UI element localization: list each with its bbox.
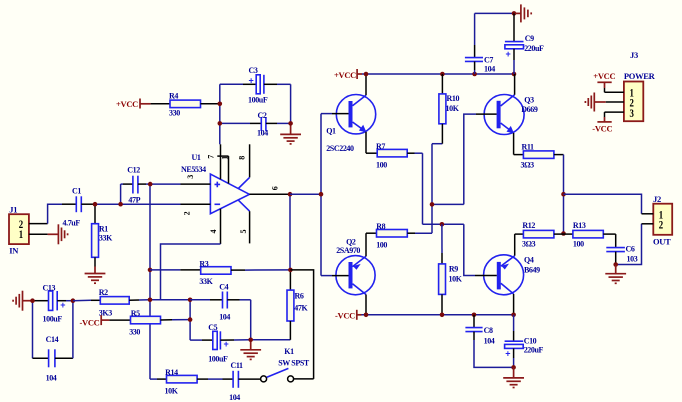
junction dots (+VCC rail) <box>364 72 369 77</box>
svg-text:+: + <box>505 348 510 358</box>
svg-text:104: 104 <box>484 65 495 74</box>
connector J1 IN <box>9 205 48 256</box>
svg-text:C2: C2 <box>258 111 267 120</box>
switch K1 SW SPST <box>261 347 314 382</box>
svg-text:C8: C8 <box>484 326 493 335</box>
resistor R11 <box>514 142 564 169</box>
svg-text:104: 104 <box>46 374 57 383</box>
ground (C13 left-pointing) <box>13 291 32 311</box>
svg-text:-VCC: -VCC <box>592 123 612 133</box>
wire Q3 base riser <box>464 114 476 204</box>
ground (top, right-pointing) <box>514 4 531 22</box>
power port +VCC (J3 pin1, up) <box>593 71 615 92</box>
junction dots (output node) <box>561 192 566 197</box>
svg-text:C12: C12 <box>127 166 140 175</box>
resistor R1 <box>92 204 114 266</box>
svg-text:C3: C3 <box>249 66 258 75</box>
svg-text:330: 330 <box>169 109 180 118</box>
wire -in line <box>95 203 181 205</box>
capacitor C2 <box>220 111 291 138</box>
capacitor C5 <box>190 323 251 363</box>
ground (J3 pin2, left-pointing) <box>585 93 605 112</box>
resistor R12 <box>515 221 564 248</box>
ground (C10) <box>503 367 524 387</box>
svg-text:R7: R7 <box>376 142 385 151</box>
svg-text:+: + <box>506 49 511 59</box>
svg-text:Q3: Q3 <box>524 96 534 105</box>
wire to J2 pin2 <box>616 224 642 265</box>
op-amp pin 8 <box>238 144 249 188</box>
resistor R6 <box>287 270 309 340</box>
svg-text:R13: R13 <box>573 221 586 230</box>
svg-text:10K: 10K <box>449 275 463 284</box>
op-amp pin 7 <box>220 144 222 179</box>
svg-text:R6: R6 <box>295 292 304 301</box>
svg-text:C5: C5 <box>208 323 217 332</box>
svg-text:3: 3 <box>630 106 634 120</box>
svg-text:R2: R2 <box>99 288 108 297</box>
svg-text:4: 4 <box>209 230 218 234</box>
svg-text:2: 2 <box>182 211 191 215</box>
capacitor C1 <box>62 186 95 227</box>
pin number labels <box>182 155 279 234</box>
svg-text:103: 103 <box>627 254 638 263</box>
wire +in node to bases drop <box>150 183 180 185</box>
svg-text:47P: 47P <box>128 195 140 204</box>
capacitor C4 <box>190 282 251 321</box>
op-amp pin 2 stub (-in) <box>181 203 211 205</box>
resistor R4 <box>151 92 220 118</box>
junction dot (C10 node) <box>511 365 516 370</box>
capacitor C6 <box>606 234 637 264</box>
wire output node vertical to feedback <box>289 194 291 270</box>
resistor R9 <box>439 224 463 314</box>
svg-text:R8: R8 <box>376 222 385 231</box>
connector J3 POWER <box>605 50 656 121</box>
wire Q4 base dropper <box>464 224 475 275</box>
svg-text:Q1: Q1 <box>326 126 336 135</box>
op-amp U1 NE5534 <box>181 153 249 214</box>
wire node B horizontal <box>423 223 464 225</box>
svg-text:U1: U1 <box>192 153 201 162</box>
svg-text:+VCC: +VCC <box>334 70 356 80</box>
wire to J2 pin1 <box>564 194 642 214</box>
capacitor C3 <box>220 66 291 105</box>
capacitor C8 <box>465 315 494 346</box>
svg-text:B649: B649 <box>524 265 540 274</box>
wire -VCC rail <box>362 314 514 316</box>
capacitor C7 <box>465 13 495 74</box>
capacitor C14 <box>33 301 73 383</box>
ground (C6) <box>605 265 626 284</box>
svg-text:2: 2 <box>659 218 663 232</box>
svg-text:+: + <box>60 300 65 310</box>
wire R2 line to C4 <box>150 299 190 301</box>
junction dots (feedback node) <box>288 268 293 273</box>
svg-text:104: 104 <box>219 312 230 321</box>
svg-text:R4: R4 <box>169 92 178 101</box>
svg-text:Q4: Q4 <box>524 255 534 264</box>
svg-text:220uF: 220uF <box>524 44 544 53</box>
junction dots (C13 node) <box>30 298 35 303</box>
svg-text:OUT: OUT <box>653 237 671 247</box>
svg-text:100: 100 <box>376 160 387 169</box>
svg-text:C10: C10 <box>524 336 537 345</box>
svg-text:33K: 33K <box>199 277 213 286</box>
junction dot node B <box>440 222 445 227</box>
resistor R8 <box>366 222 432 250</box>
svg-text:D669: D669 <box>521 105 538 114</box>
svg-text:104: 104 <box>484 336 495 345</box>
svg-text:R14: R14 <box>165 368 178 377</box>
op-amp pin 6 stub (output) <box>249 193 290 195</box>
transistor Q1 2SC2240 <box>321 74 376 153</box>
wire node A vertical x432 (R10 jog to R8 jog) <box>432 144 442 234</box>
svg-text:R5: R5 <box>131 309 140 318</box>
power port -VCC (J3 pin3, down) <box>592 112 612 133</box>
wire output node vertical x563 <box>563 155 565 234</box>
ground (C5/C4 node) <box>240 340 261 360</box>
ground (R1) <box>85 267 106 284</box>
op-amp pin 3 stub (+in) <box>181 183 211 185</box>
wire op-amp pin4 to R2 line <box>161 244 221 300</box>
svg-text:IN: IN <box>9 246 19 256</box>
svg-text:330: 330 <box>129 327 140 336</box>
junction dot (top) <box>512 11 517 16</box>
wire top loop <box>475 12 514 14</box>
wire bases vertical x321 <box>320 114 322 276</box>
svg-text:100: 100 <box>573 239 584 248</box>
svg-text:4.7uF: 4.7uF <box>63 218 81 227</box>
svg-text:+VCC: +VCC <box>116 99 138 109</box>
resistor R5 <box>109 309 190 337</box>
power port +VCC (rail) <box>334 69 362 80</box>
svg-text:R12: R12 <box>522 221 535 230</box>
power port -VCC (rail) <box>335 310 362 321</box>
svg-text:C7: C7 <box>484 55 493 64</box>
resistor R13 <box>564 221 616 248</box>
junction dots (input line) <box>93 202 98 207</box>
svg-text:C6: C6 <box>626 244 635 253</box>
wire feedback vertical x150 <box>149 184 151 379</box>
svg-text:3Ω3: 3Ω3 <box>522 239 536 248</box>
junction dot node A <box>430 202 435 207</box>
wire output to driver bases <box>290 193 321 195</box>
connector J2 OUT <box>642 194 673 247</box>
svg-text:1: 1 <box>220 156 229 160</box>
resistor R10 <box>439 74 460 144</box>
svg-text:10K: 10K <box>446 104 460 113</box>
svg-text:SW SPST: SW SPST <box>278 359 310 368</box>
transistor Q4 B649 <box>475 234 540 315</box>
svg-text:10K: 10K <box>165 386 179 395</box>
power port +VCC (R4 supply) <box>116 99 151 110</box>
svg-text:-VCC: -VCC <box>335 311 355 321</box>
svg-text:100uF: 100uF <box>43 315 63 324</box>
svg-text:47K: 47K <box>294 304 308 313</box>
capacitor C12 <box>121 166 151 205</box>
junction dot (C6 node) <box>613 262 618 267</box>
svg-text:R9: R9 <box>449 264 458 273</box>
power port -VCC (R5) <box>79 315 109 327</box>
svg-text:C11: C11 <box>231 361 244 370</box>
junction dots (-VCC rail) <box>364 313 369 318</box>
wire C3/C2 left vertical <box>219 84 221 144</box>
wire C5 node to R6 bottom <box>251 339 291 341</box>
svg-text:J3: J3 <box>630 50 638 60</box>
svg-text:220uF: 220uF <box>524 346 544 355</box>
svg-text:C13: C13 <box>43 284 56 293</box>
svg-text:100uF: 100uF <box>248 95 268 104</box>
svg-text:1: 1 <box>19 227 23 241</box>
svg-text:+: + <box>249 76 254 86</box>
op-amp pin 4 <box>220 209 222 244</box>
svg-text:R1: R1 <box>99 225 108 234</box>
junction dot (bases node) <box>319 192 324 197</box>
svg-text:C4: C4 <box>219 282 228 291</box>
wire +VCC rail <box>362 73 514 75</box>
wire C8 bottom loop <box>474 340 514 367</box>
svg-text:R10: R10 <box>447 94 460 103</box>
junction dots (R4/C3/C2 node) <box>218 102 223 107</box>
resistor R2 <box>73 288 150 317</box>
wire C12 left drop <box>120 184 122 204</box>
svg-text:K1: K1 <box>284 347 294 356</box>
capacitor C10 <box>505 315 544 368</box>
svg-text:100: 100 <box>376 241 387 250</box>
wire R7 drop to node B <box>422 153 424 224</box>
svg-text:-VCC: -VCC <box>79 317 99 327</box>
wire feedback to K1 branch <box>290 270 313 379</box>
wire J1 pin2 up <box>48 204 62 223</box>
svg-text:2SC2240: 2SC2240 <box>326 144 354 153</box>
svg-text:6: 6 <box>271 186 280 190</box>
svg-text:R3: R3 <box>199 259 208 268</box>
svg-text:3Ω3: 3Ω3 <box>521 161 535 170</box>
svg-text:NE5534: NE5534 <box>181 165 206 174</box>
wire C3/C2 right vertical <box>290 84 292 123</box>
svg-text:J2: J2 <box>653 194 661 204</box>
svg-text:C9: C9 <box>525 34 534 43</box>
svg-text:5: 5 <box>239 230 248 234</box>
svg-text:POWER: POWER <box>624 71 656 81</box>
wire node A horizontal <box>432 203 464 205</box>
op-amp pin 5 <box>238 200 250 244</box>
junction dots (x150 / x190) <box>148 268 153 273</box>
svg-text:100uF: 100uF <box>208 354 228 363</box>
resistor R14 <box>150 368 223 395</box>
svg-text:C14: C14 <box>46 335 59 344</box>
op-amp pin 1 <box>217 156 228 184</box>
ground (J1 pin1, right-pointing) <box>48 224 68 244</box>
svg-text:+VCC: +VCC <box>593 71 615 81</box>
capacitor C9 <box>505 13 544 74</box>
svg-text:3: 3 <box>186 175 195 179</box>
svg-text:2SA970: 2SA970 <box>336 246 360 255</box>
resistor R3 <box>150 259 290 286</box>
ground (C2) <box>280 123 301 143</box>
svg-text:33K: 33K <box>99 234 113 243</box>
junction dot (C5 node) <box>248 338 253 343</box>
svg-text:8: 8 <box>238 156 247 160</box>
svg-text:7: 7 <box>207 155 216 159</box>
svg-text:104: 104 <box>229 393 240 402</box>
wire C4-C5 right vertical <box>250 300 252 340</box>
svg-text:C1: C1 <box>72 186 81 195</box>
svg-text:R11: R11 <box>522 142 535 151</box>
transistor Q2 2SA970 <box>321 233 375 315</box>
resistor R7 <box>366 142 423 169</box>
svg-text:+: + <box>224 339 229 349</box>
svg-text:104: 104 <box>257 129 268 138</box>
wire R5/C5 vertical x190 <box>189 300 191 340</box>
capacitor C11 <box>223 361 261 402</box>
svg-text:J1: J1 <box>9 205 17 215</box>
transistor Q3 D669 <box>476 74 538 155</box>
capacitor C13 <box>33 284 73 324</box>
